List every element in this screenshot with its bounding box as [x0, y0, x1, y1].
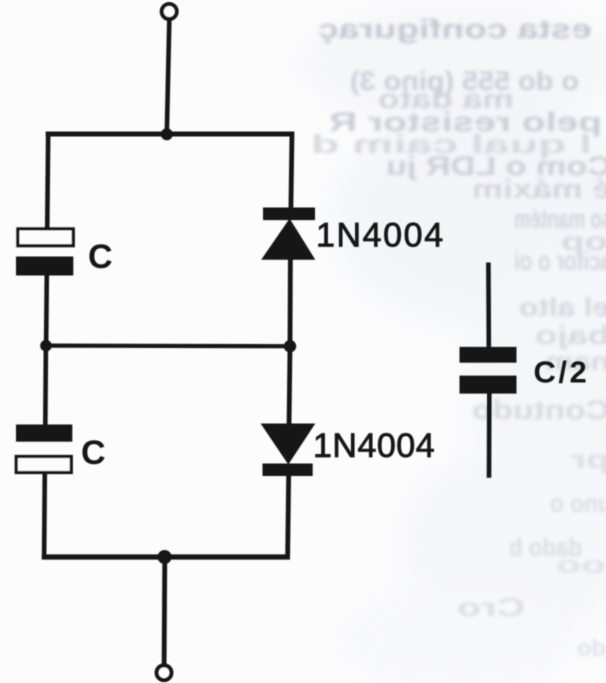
wire: left rail lower-middle section — [43, 346, 48, 425]
diode D1 (1N4004) — [261, 208, 315, 260]
capacitor C2 — [16, 425, 72, 473]
svg-text:1N4004: 1N4004 — [313, 427, 435, 465]
diode D2 (1N4004) — [261, 424, 316, 477]
svg-text:acitor o oi: acitor o oi — [514, 246, 606, 276]
junction: left middle node — [40, 340, 52, 352]
wire: C/2 bottom lead — [487, 394, 492, 478]
wire: left rail upper section — [47, 132, 48, 231]
wire: left rail bottom section — [42, 473, 47, 560]
svg-text:pr: pr — [571, 444, 606, 474]
wire: right rail lower-middle section — [289, 346, 290, 428]
junction: right middle node — [284, 340, 296, 352]
svg-text:é máxim: é máxim — [472, 174, 606, 204]
svg-text:1N4004: 1N4004 — [316, 217, 445, 255]
wire: right rail middle section — [288, 255, 293, 346]
terminal top — [162, 4, 177, 19]
wire: middle rail — [46, 344, 290, 349]
svg-text:Cro: Cro — [457, 592, 525, 622]
junction: top node — [161, 128, 173, 140]
wire: top rail — [46, 132, 294, 137]
svg-text:oo: oo — [556, 552, 606, 579]
svg-text:C: C — [81, 434, 106, 472]
svg-text:do: do — [577, 635, 606, 662]
svg-text:Contudo: Contudo — [472, 395, 606, 425]
svg-text:C: C — [88, 238, 113, 276]
junction: bottom node — [158, 550, 172, 564]
wire: right rail bottom section — [288, 472, 289, 560]
wire: right rail top section — [291, 132, 292, 217]
wire: bottom rail — [42, 554, 290, 559]
terminal bottom — [157, 665, 172, 680]
svg-text:uno o: uno o — [550, 488, 606, 518]
wire: C/2 top lead — [486, 263, 491, 349]
wire: top terminal stem — [167, 21, 170, 135]
wire: bottom terminal stem — [162, 557, 167, 665]
svg-text:C/2: C/2 — [534, 355, 590, 390]
svg-text:el alto: el alto — [519, 292, 606, 322]
wire: left rail middle section — [44, 276, 49, 347]
capacitor C3 (C/2) — [460, 347, 517, 394]
capacitor C1 — [16, 229, 73, 276]
svg-text:esta configuraç: esta configuraç — [318, 14, 592, 44]
